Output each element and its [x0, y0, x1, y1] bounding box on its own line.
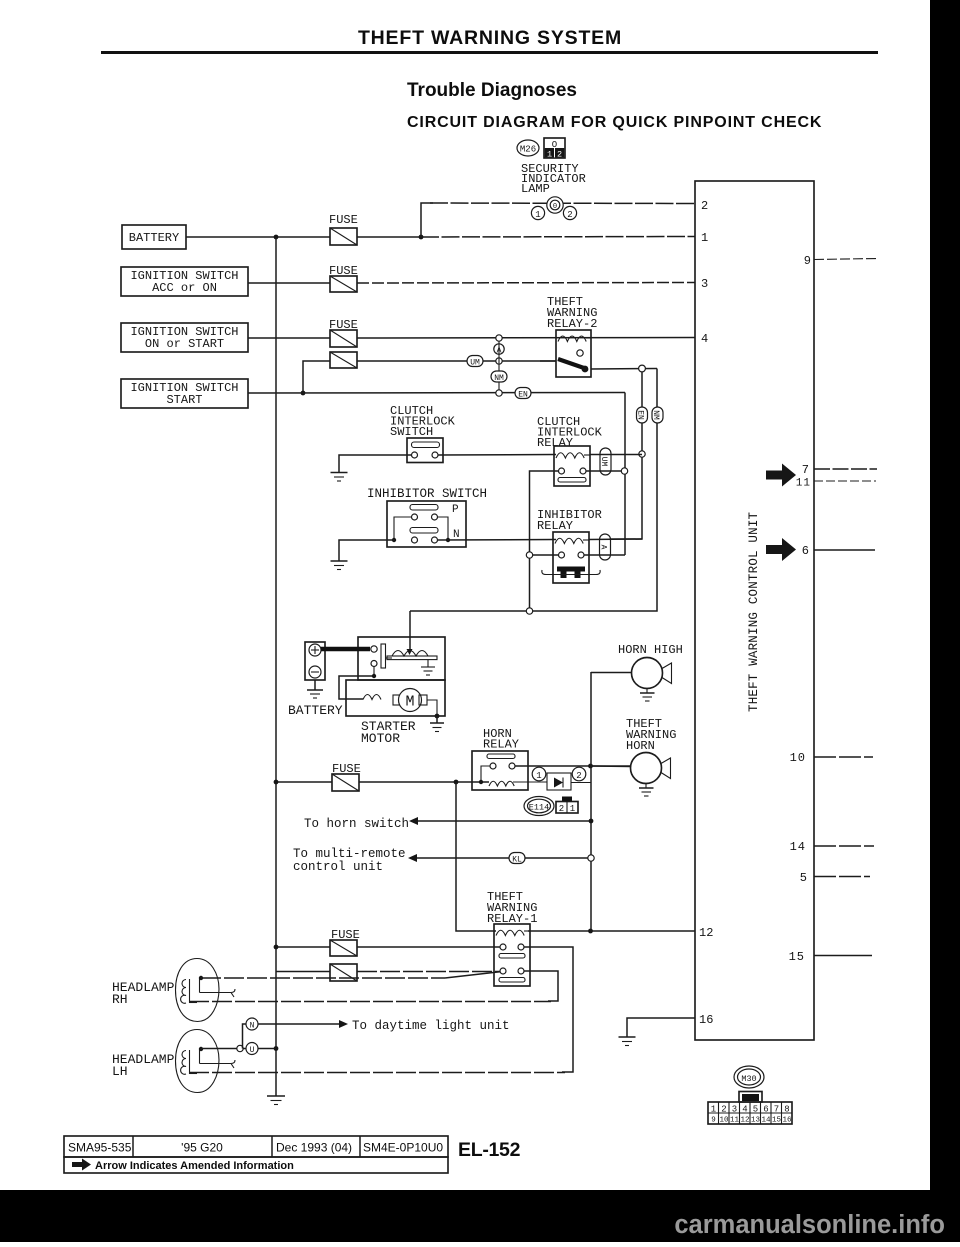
wire relay-2 output: [591, 368, 657, 371]
node U junction circle: [237, 1045, 243, 1051]
pin 9 label and wire: [804, 254, 877, 268]
wire clutch relay contact left drop: [530, 471, 559, 611]
svg-text:4: 4: [742, 1105, 747, 1115]
ground theft warning horn: [639, 784, 654, 797]
svg-text:NM: NM: [651, 410, 660, 420]
vertical link A node chain: [498, 341, 500, 390]
wire EN drop to clutch relay coil and inhibitor coil: [610, 372, 642, 539]
ignition switch START box: [121, 379, 248, 408]
fuse F1: [330, 228, 357, 245]
svg-text:BATTERY: BATTERY: [288, 703, 343, 718]
wire RH lamp feed: [201, 972, 500, 978]
svg-text:THEFT WARNING SYSTEM: THEFT WARNING SYSTEM: [358, 27, 622, 49]
connector 2|1 box: [556, 797, 578, 815]
svg-text:14: 14: [790, 840, 806, 854]
wire N branch riser: [243, 1024, 247, 1049]
connector EN pill on START wire: [515, 388, 531, 400]
wire relay-1 coil feed drop: [456, 782, 496, 931]
pin 7 label and wire: [802, 463, 877, 477]
node START connector junction: [496, 390, 502, 396]
svg-text:12: 12: [699, 926, 713, 940]
motor right brush box: [419, 695, 427, 705]
amended arrow pins 7/11: [766, 464, 796, 487]
svg-text:15: 15: [789, 950, 805, 964]
headlamp RH balloon: [176, 959, 236, 1022]
svg-text:2: 2: [576, 771, 581, 781]
svg-text:1: 1: [547, 150, 552, 160]
svg-text:5: 5: [800, 871, 807, 885]
label HORN RELAY: [483, 727, 519, 752]
wire fuse F4 branch from START feed: [303, 361, 330, 393]
node starter run junction: [526, 608, 532, 614]
wire starter solenoid drop: [409, 611, 411, 649]
svg-text:To multi-remote: To multi-remote: [293, 847, 406, 861]
svg-text:9: 9: [804, 254, 811, 268]
svg-text:M: M: [405, 694, 414, 711]
wire NM drop to starter solenoid run: [410, 369, 657, 612]
connector KL pill: [509, 853, 525, 865]
fuse F5 horn relay: [332, 774, 359, 791]
svg-text:2: 2: [559, 804, 564, 814]
svg-text:8: 8: [784, 1105, 789, 1115]
ignition switch ACC or ON box: [121, 267, 248, 296]
svg-text:UM: UM: [470, 359, 480, 368]
headlamp LH balloon: [176, 1030, 236, 1093]
svg-text:CIRCUIT DIAGRAM FOR QUICK PINP: CIRCUIT DIAGRAM FOR QUICK PINPOINT CHECK: [407, 114, 822, 131]
security indicator lamp symbol: [531, 197, 576, 220]
clutch interlock relay: [554, 446, 590, 486]
pin 14 label and wire: [790, 840, 874, 854]
connector UM pill vertical clutch relay: [599, 448, 611, 475]
svg-text:11: 11: [796, 478, 811, 490]
node inhibitor contact left junction: [526, 552, 532, 558]
bottom black strip: [0, 1190, 960, 1242]
connector circle N: [246, 1018, 258, 1031]
starter motor M: [399, 689, 422, 712]
svg-text:1: 1: [701, 231, 708, 245]
svg-text:'95 G20: '95 G20: [181, 1141, 223, 1155]
wire bus to fuse F7: [276, 971, 330, 973]
theft warning relay-1: [494, 924, 530, 986]
svg-text:START: START: [166, 393, 202, 407]
svg-text:M30: M30: [741, 1074, 756, 1084]
svg-text:11: 11: [730, 1117, 740, 1125]
wire horn relay contact output: [515, 765, 631, 767]
label HEADLAMP RH: [112, 980, 175, 1007]
ground control unit: [619, 1037, 636, 1046]
clutch interlock switch: [407, 438, 443, 463]
label THEFT WARNING RELAY-2: [547, 295, 597, 331]
node A junction upper: [496, 335, 502, 341]
starter motor solenoid box: [358, 637, 445, 680]
page title THEFT WARNING SYSTEM: [358, 27, 622, 49]
connector circle U: [246, 1043, 258, 1056]
theft warning control unit box: [695, 181, 814, 1040]
node LH bus junction: [274, 1046, 279, 1051]
label STARTER MOTOR: [361, 719, 416, 746]
svg-text:NM: NM: [494, 374, 504, 383]
label CLUTCH INTERLOCK SWITCH: [390, 404, 456, 439]
node lamp feed junction: [419, 235, 424, 240]
svg-text:RELAY: RELAY: [537, 519, 573, 533]
wire inhibitor switch N to ground: [339, 540, 394, 561]
svg-text:16: 16: [782, 1117, 792, 1125]
svg-text:9: 9: [711, 1117, 716, 1125]
node cable terminal: [371, 646, 377, 652]
wire inhibitor contact right to START drop: [584, 554, 625, 556]
wire fuse F5 to horn relay coil: [359, 781, 489, 783]
svg-text:BATTERY: BATTERY: [129, 231, 179, 245]
solenoid lower terminal: [371, 661, 377, 667]
svg-text:SMA95-535: SMA95-535: [68, 1141, 132, 1155]
battery symbol box: [305, 642, 325, 680]
svg-text:THEFT WARNING CONTROL UNIT: THEFT WARNING CONTROL UNIT: [747, 511, 761, 712]
ground horn high: [640, 689, 655, 702]
connector M26 oval: [517, 140, 539, 156]
wire to horn switch: [417, 820, 591, 822]
svg-text:1: 1: [570, 804, 575, 814]
inhibitor relay: [542, 532, 600, 583]
pin 15 label and wire: [789, 950, 872, 964]
svg-text:12: 12: [740, 1117, 749, 1125]
svg-text:SM4E-0P10U0: SM4E-0P10U0: [363, 1141, 443, 1155]
wire inhibitor contact left: [530, 554, 559, 556]
ground headlamp bus: [267, 1096, 285, 1105]
connector E114 oval: [524, 797, 554, 816]
label HEADLAMP LH: [112, 1052, 175, 1079]
wire fuse F6 to relay-1 upper contact: [357, 946, 500, 948]
svg-text:2: 2: [721, 1105, 726, 1115]
horn relay: [472, 751, 528, 790]
wire LH lamp to U connector: [201, 1048, 276, 1050]
fuse F3: [330, 330, 357, 347]
svg-text:3: 3: [732, 1105, 737, 1115]
wire pin 16 to ground: [627, 1018, 695, 1037]
connector M30 tab: [739, 1092, 762, 1103]
svg-text:5: 5: [753, 1105, 758, 1115]
svg-text:ON or START: ON or START: [145, 337, 224, 351]
svg-text:RELAY-2: RELAY-2: [547, 317, 597, 331]
arrow to multi-remote: [408, 854, 417, 862]
node multi-remote junction: [588, 855, 594, 861]
svg-text:1: 1: [711, 1105, 716, 1115]
svg-text:HORN: HORN: [626, 739, 655, 753]
svg-text:7: 7: [802, 463, 809, 477]
svg-text:2: 2: [557, 150, 562, 160]
svg-text:KL: KL: [512, 856, 522, 865]
fuse F7: [330, 964, 357, 981]
svg-text:Dec 1993 (04): Dec 1993 (04): [276, 1141, 352, 1155]
wire fuse F4 to relay-2 contact: [357, 360, 556, 362]
label SECURITY INDICATOR LAMP: [521, 162, 586, 196]
diode D1 with pins 1 and 2: [513, 767, 591, 790]
node relay-2 output junction: [639, 365, 646, 372]
label THEFT WARNING HORN: [626, 717, 676, 753]
right black margin: [930, 0, 960, 1242]
fuse F4: [330, 352, 357, 368]
wire clutch relay coil to EN node: [590, 454, 642, 456]
theft warning horn symbol: [631, 753, 671, 784]
solenoid plunger: [381, 644, 392, 668]
solenoid coil: [387, 651, 437, 660]
svg-text:3: 3: [701, 277, 708, 291]
svg-text:EN: EN: [518, 391, 528, 400]
connector EN pill vertical: [636, 407, 648, 423]
starter motor main box: [346, 680, 445, 716]
svg-text:LH: LH: [112, 1064, 128, 1079]
node START fuse tap: [301, 391, 306, 396]
svg-text:RH: RH: [112, 992, 128, 1007]
wire ignition START run: [248, 392, 625, 395]
theft warning relay-2: [556, 330, 591, 377]
wire security lamp to pin 2: [430, 202, 695, 205]
wire RH lamp bottom run: [189, 1001, 551, 1003]
wire bus to fuse F5: [276, 781, 332, 783]
svg-text:P: P: [452, 504, 459, 516]
svg-text:14: 14: [761, 1117, 771, 1125]
arrow to daytime light unit: [339, 1020, 348, 1028]
svg-text:2: 2: [567, 210, 572, 220]
svg-text:A: A: [599, 545, 608, 550]
inhibitor switch: [387, 501, 466, 547]
pin 10 label and wire: [790, 751, 873, 765]
node horn tee: [588, 764, 593, 769]
svg-text:1: 1: [536, 771, 541, 781]
svg-text:6: 6: [763, 1105, 768, 1115]
svg-text:Arrow Indicates Amended Inform: Arrow Indicates Amended Information: [95, 1160, 294, 1172]
amended arrow pin 6: [766, 538, 796, 561]
node motor ground junction: [435, 714, 440, 719]
label THEFT WARNING RELAY-1: [487, 890, 537, 926]
svg-text:MOTOR: MOTOR: [361, 731, 400, 746]
svg-text:2: 2: [701, 199, 708, 213]
node UM wire junction: [496, 358, 502, 364]
main battery bus vertical: [275, 237, 277, 1096]
node horn switch tee: [589, 819, 594, 824]
wire relay-1 lower contact to RH lamp loop: [524, 971, 558, 1001]
ground battery: [307, 680, 323, 698]
connector circle A: [494, 344, 504, 356]
connector UM on fuse F4 wire: [467, 356, 483, 368]
wire clutch relay contact right to START drop: [586, 470, 625, 472]
node bus relay-1 tap: [274, 945, 279, 950]
wire solenoid terminal to motor loop: [339, 667, 374, 700]
svg-text:INHIBITOR SWITCH: INHIBITOR SWITCH: [367, 487, 487, 501]
wire to multi-remote control unit: [416, 857, 591, 859]
svg-text:10: 10: [790, 751, 806, 765]
wire fuse F7 to relay-1 lower contact: [357, 971, 500, 973]
connector NM pill on link: [491, 371, 507, 383]
svg-text:HORN HIGH: HORN HIGH: [618, 643, 683, 657]
node bus horn fuse tap: [274, 780, 279, 785]
svg-text:M26: M26: [520, 145, 536, 155]
connector pin box O 1|2: [544, 138, 565, 160]
svg-text:To daytime light unit: To daytime light unit: [352, 1019, 510, 1033]
connector NM pill vertical: [651, 407, 663, 423]
wire relay-1 upper contact to LH lamp loop: [524, 947, 573, 1072]
wire battery to fuse F1: [186, 236, 330, 238]
horn high symbol: [632, 658, 672, 689]
solenoid junction triangle: [407, 649, 413, 655]
label To multi-remote control unit: [293, 847, 406, 874]
svg-text:Trouble Diagnoses: Trouble Diagnoses: [407, 80, 577, 101]
node clutch contact START junction: [621, 468, 627, 474]
ignition switch ON or START box: [121, 323, 248, 352]
battery thick cable: [321, 647, 370, 651]
wire bus to fuse F6: [276, 946, 330, 948]
svg-text:E114: E114: [529, 803, 549, 813]
connector M30 pin grid: [708, 1102, 792, 1125]
label CLUTCH INTERLOCK RELAY: [537, 415, 603, 450]
wire security lamp riser: [421, 203, 433, 237]
svg-text:10: 10: [719, 1117, 729, 1125]
wire horn high feed: [591, 672, 632, 674]
wire inhibitor N to inhibitor relay coil: [438, 539, 556, 542]
node battery feed junction: [274, 235, 279, 240]
wire fuse F2 to control unit pin 3: [357, 282, 695, 285]
wire inhibitor relay coil to EN corner: [589, 538, 642, 541]
svg-text:RELAY: RELAY: [537, 436, 573, 450]
node relay-1 feed tap: [454, 780, 459, 785]
wire fuse F1 to control unit pin 1: [357, 236, 695, 239]
wire fuse F3 to relay-2 coil and pin 4: [357, 337, 695, 340]
svg-text:SWITCH: SWITCH: [390, 425, 433, 439]
svg-text:UM: UM: [599, 457, 608, 467]
svg-text:6: 6: [802, 544, 809, 558]
fuse F2: [330, 276, 357, 292]
node clutch relay coil junction: [639, 451, 645, 457]
motor left brush box: [393, 695, 401, 705]
svg-text:4: 4: [701, 332, 708, 346]
svg-text:15: 15: [772, 1117, 782, 1125]
pin 5 label and wire: [800, 871, 870, 885]
footer table: [64, 1136, 448, 1173]
node horn vertical to pin12: [588, 929, 593, 934]
node solenoid terminal junction: [372, 674, 376, 678]
title rule: [101, 51, 878, 54]
ground inhibitor switch: [331, 561, 348, 570]
connector M30 oval: [734, 1066, 764, 1088]
ground solenoid core: [421, 660, 435, 675]
svg-text:U: U: [250, 1046, 255, 1055]
battery box: [122, 225, 186, 249]
wire clutch switch to clutch relay coil: [438, 454, 556, 457]
connector A pill vertical: [599, 534, 611, 560]
wire relay-2 contact feed: [540, 360, 556, 362]
wire ignition ON/START to fuse F3: [248, 337, 330, 339]
svg-text:LAMP: LAMP: [521, 182, 550, 196]
pin 6 label and wire: [802, 544, 875, 558]
svg-text:N: N: [250, 1022, 255, 1031]
svg-text:EN: EN: [636, 410, 645, 420]
ground starter motor: [430, 716, 444, 732]
svg-text:EL-152: EL-152: [458, 1139, 521, 1161]
motor field inductor: [363, 695, 381, 700]
svg-text:13: 13: [751, 1117, 761, 1125]
svg-text:control unit: control unit: [293, 860, 383, 874]
wire LH lamp bottom run: [189, 1072, 565, 1074]
svg-text:0: 0: [553, 203, 557, 211]
wire N to daytime light unit: [258, 1023, 341, 1025]
svg-text:ACC or ON: ACC or ON: [152, 281, 217, 295]
wire START drop vertical: [624, 393, 626, 556]
ground clutch switch: [331, 473, 348, 482]
svg-text:7: 7: [774, 1105, 779, 1115]
fuse F6: [330, 940, 357, 956]
wire ignition ACC to fuse F2: [248, 282, 330, 284]
wire clutch switch to ground: [339, 455, 411, 472]
svg-text:RELAY: RELAY: [483, 738, 519, 752]
svg-text:1: 1: [535, 210, 540, 220]
svg-text:16: 16: [699, 1013, 713, 1027]
arrow to horn switch: [409, 817, 418, 825]
wire motor to ground: [427, 700, 437, 716]
svg-text:FUSE: FUSE: [329, 213, 358, 227]
pin 11 label and wire: [796, 478, 876, 490]
horn feed vertical: [590, 672, 592, 931]
svg-text:carmanualsonline.info: carmanualsonline.info: [674, 1211, 945, 1239]
label INHIBITOR RELAY: [537, 508, 602, 533]
svg-text:To horn switch: To horn switch: [304, 817, 409, 831]
wire theft horn feed: [591, 765, 631, 768]
wire relay-1 coil to pin 12: [528, 930, 695, 932]
